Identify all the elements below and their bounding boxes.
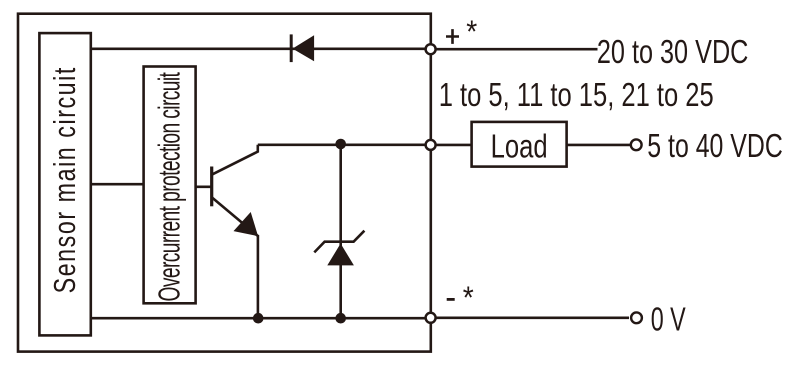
label: * note marker (top) bbox=[466, 13, 477, 49]
svg-text:*: * bbox=[463, 279, 474, 315]
node: zener junction on 0V rail bbox=[335, 313, 346, 324]
wire: top supply rail from sensor block to + terminal bbox=[91, 47, 431, 50]
wire: output terminal to load bbox=[436, 144, 472, 147]
terminal: + supply bbox=[426, 44, 436, 54]
svg-text:5 to 40 VDC: 5 to 40 VDC bbox=[647, 127, 783, 165]
svg-text:Load: Load bbox=[491, 129, 548, 166]
wire: + terminal to supply lead bbox=[436, 48, 598, 51]
wire: bottom 0V rail from sensor block to - terminal bbox=[91, 317, 431, 320]
overcurrent protection circuit block bbox=[144, 67, 196, 304]
zener diode ZD1 bbox=[314, 231, 364, 266]
label: 5 to 40 VDC bbox=[647, 127, 783, 165]
wire: sensor block to overcurrent block bbox=[91, 183, 144, 186]
svg-text:Overcurrent protection circuit: Overcurrent protection circuit bbox=[153, 72, 187, 301]
load box bbox=[472, 122, 567, 167]
terminal: output bbox=[426, 140, 436, 150]
diode D1 (reverse polarity protection) bbox=[291, 34, 314, 62]
terminal: - 0V bbox=[426, 313, 436, 323]
label: 0 V bbox=[651, 301, 686, 339]
svg-text:20 to 30 VDC: 20 to 30 VDC bbox=[597, 33, 749, 71]
wire: - terminal to 0V connector bbox=[436, 316, 629, 319]
outer case boundary bbox=[18, 14, 431, 352]
transistor Q1 (NPN output) bbox=[196, 145, 259, 236]
svg-text:1 to 5, 11 to 15, 21 to 25: 1 to 5, 11 to 15, 21 to 25 bbox=[439, 76, 714, 114]
connector: 5 to 40 VDC open circle bbox=[631, 139, 642, 150]
svg-text:0 V: 0 V bbox=[651, 301, 686, 339]
wire: load to 5-40VDC connector bbox=[567, 144, 631, 147]
svg-text:Sensor main circuit: Sensor main circuit bbox=[47, 67, 82, 293]
wire: emitter vertical down to 0V rail bbox=[257, 235, 260, 318]
connector: 0V open circle bbox=[631, 312, 642, 323]
wire: zener branch vertical bbox=[339, 145, 342, 318]
label: - polarity bbox=[447, 298, 455, 301]
label: terminal numbers 1 to 5, 11 to 15, 21 to 25 bbox=[439, 76, 714, 114]
node: zener tap on output line bbox=[335, 139, 346, 150]
sensor main circuit block bbox=[39, 33, 90, 335]
svg-text:*: * bbox=[466, 13, 477, 49]
wire: output line from transistor collector to output terminal bbox=[258, 144, 431, 147]
label: * note marker (bottom) bbox=[463, 279, 474, 315]
node: emitter junction on 0V rail bbox=[253, 313, 264, 324]
label: + polarity bbox=[446, 29, 459, 44]
label: 20 to 30 VDC bbox=[597, 33, 749, 71]
